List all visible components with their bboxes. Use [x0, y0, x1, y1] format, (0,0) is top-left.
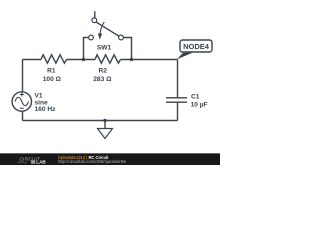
resistor R2 [93, 55, 120, 83]
svg-text:100 Ω: 100 Ω [43, 76, 62, 83]
svg-text:SW1: SW1 [97, 45, 112, 52]
resistor R1 [41, 55, 67, 83]
svg-text:NODE4: NODE4 [183, 42, 210, 51]
wire: switch branch right riser [123, 38, 131, 61]
svg-text:http://circuitlab.com/c8r5mjur: http://circuitlab.com/c8r5mjuramkr8w [58, 159, 127, 164]
svg-text:C1: C1 [191, 94, 200, 101]
node NODE4 flag [177, 40, 212, 59]
wire: left rail (bottom) [22, 111, 24, 120]
ground [98, 121, 113, 139]
wire: top rail right segment [121, 59, 178, 61]
wire: right rail (top) [177, 60, 179, 98]
footer CircuitLab logo [18, 157, 47, 165]
footer credit line [58, 155, 127, 164]
svg-text:LAB: LAB [36, 160, 46, 165]
wire: left rail (top) [22, 60, 24, 92]
voltage source V1 [12, 92, 56, 113]
capacitor C1 [166, 94, 208, 109]
svg-text:160 Hz: 160 Hz [35, 106, 57, 113]
svg-text:R2: R2 [98, 68, 107, 75]
switch SW1 [89, 11, 124, 51]
svg-text:10 µF: 10 µF [191, 102, 208, 109]
wire: switch branch left riser [84, 38, 89, 61]
svg-text:R1: R1 [47, 68, 56, 75]
wire: top rail between R1 and R2 [67, 59, 96, 61]
node junction dot right (R2/switch) [130, 58, 133, 61]
wire: bottom rail [23, 120, 178, 122]
node junction dot ground [103, 119, 106, 122]
footer bar [0, 153, 220, 165]
wire: top rail left segment [23, 59, 42, 61]
wire: right rail (bottom) [177, 103, 179, 121]
svg-text:283 Ω: 283 Ω [93, 76, 112, 83]
node junction dot left (R1/R2/switch) [82, 58, 85, 61]
